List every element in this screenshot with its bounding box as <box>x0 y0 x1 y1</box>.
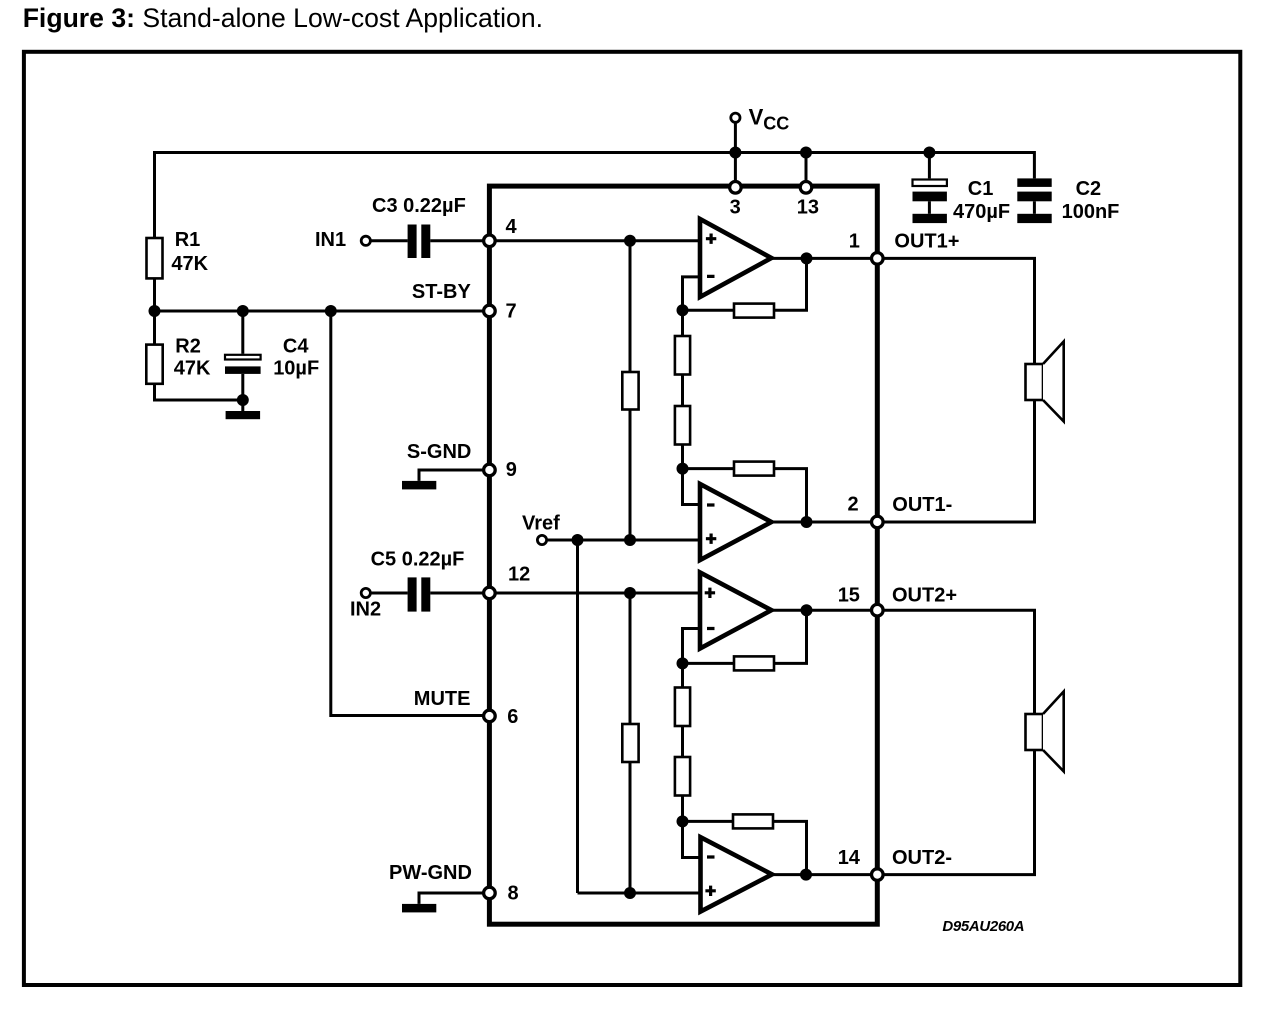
wire op-amp U1 - input jog <box>683 277 701 310</box>
ground C2 <box>1017 214 1051 223</box>
svg-text:2: 2 <box>848 494 859 516</box>
resistor R2 <box>146 345 162 384</box>
svg-text:OUT2+: OUT2+ <box>892 585 957 607</box>
pin 8 <box>484 887 496 899</box>
wire feedback node C <box>683 610 807 663</box>
svg-text:3: 3 <box>730 196 741 218</box>
svg-text:OUT1-: OUT1- <box>892 494 952 516</box>
wire C4 bottom lead <box>241 374 244 411</box>
terminal IN2 <box>361 588 370 597</box>
node feedback B <box>677 463 689 475</box>
node feedback C <box>677 657 689 669</box>
op-amp U1 <box>700 219 771 297</box>
node U2 output <box>801 516 813 528</box>
svg-text:VCC: VCC <box>749 105 790 134</box>
IC box U1 <box>489 186 877 924</box>
svg-text:12: 12 <box>508 563 530 585</box>
wire C1 top lead <box>928 153 931 179</box>
wire bias resistor R3 leads <box>629 241 632 540</box>
wire chain ch1 segments <box>681 310 684 468</box>
resistor chain ch2 lower <box>675 757 690 796</box>
node VCC rail junction <box>729 147 741 159</box>
node Vref branch <box>572 534 584 546</box>
resistor feedback U4 <box>733 814 773 828</box>
pin 4 <box>484 235 496 247</box>
svg-text:S-GND: S-GND <box>407 441 471 463</box>
wire C4 top lead <box>241 311 244 354</box>
svg-text:9: 9 <box>506 459 517 481</box>
op-amp U2 <box>700 484 771 560</box>
capacitor C1 (electrolytic) <box>913 180 947 187</box>
svg-text:ST-BY: ST-BY <box>412 281 472 303</box>
wire IN2 to C5 <box>370 592 407 595</box>
wire ST-BY <box>155 310 488 313</box>
wire op-amp U3 - input jog <box>683 629 701 664</box>
resistor R1 <box>147 238 163 278</box>
terminal Vref <box>537 535 546 544</box>
svg-text:47K: 47K <box>174 358 211 380</box>
svg-text:OUT2-: OUT2- <box>892 847 952 869</box>
wire S-GND <box>419 470 487 481</box>
speaker SPK2 <box>1026 714 1044 750</box>
svg-text:Vref: Vref <box>522 513 560 535</box>
wire bias resistor R4 leads <box>629 593 632 893</box>
svg-text:100nF: 100nF <box>1062 201 1120 223</box>
ground C4 <box>226 411 261 419</box>
wire top rail <box>155 153 1035 239</box>
terminal IN1 <box>361 236 370 245</box>
capacitor C3 plates <box>408 225 417 259</box>
svg-text:MUTE: MUTE <box>414 688 471 710</box>
wire Vref vertical drop <box>576 540 579 893</box>
pin 14 <box>872 869 884 881</box>
wire IN1 to C3 <box>370 239 407 242</box>
wire MUTE branch <box>331 311 487 716</box>
svg-text:R1: R1 <box>175 229 201 251</box>
wire U1 output through pin 1 to speaker <box>771 258 1034 364</box>
node MUTE branch junction <box>325 305 337 317</box>
op-amp U4 <box>701 837 773 911</box>
wire feedback node D <box>683 821 807 874</box>
node C1 rail junction <box>923 147 935 159</box>
wire feedback node A to resistor <box>683 309 735 312</box>
op-amp U3 <box>700 573 771 649</box>
node U1 output <box>801 252 813 264</box>
node C4 top junction <box>237 305 249 317</box>
wire feedback node B <box>683 469 807 522</box>
capacitor C4 (electrolytic) <box>225 355 261 360</box>
resistor bias ch2 <box>622 724 638 762</box>
svg-text:IN1: IN1 <box>315 229 346 251</box>
wire R1 bottom lead <box>153 278 156 311</box>
ground S-GND <box>402 481 436 490</box>
pin 13 <box>800 182 812 194</box>
svg-text:C4: C4 <box>283 335 309 357</box>
wire C2 bottom lead <box>1033 201 1036 214</box>
capacitor C2 plates <box>1017 178 1051 187</box>
svg-text:D95AU260A: D95AU260A <box>942 918 1024 935</box>
wire U2 output through pin 2 to speaker <box>771 400 1034 522</box>
wire R2 top lead <box>153 311 156 345</box>
resistor chain ch1 upper <box>675 336 690 375</box>
node U4 output <box>800 869 812 881</box>
svg-text:R2: R2 <box>175 335 201 357</box>
resistor feedback U1 <box>734 304 774 318</box>
node IN1 bias junction <box>624 235 636 247</box>
node U3 output <box>801 604 813 616</box>
svg-text:13: 13 <box>797 196 819 218</box>
wire C3 to op-amp U1 + input <box>430 239 700 242</box>
node ST-BY left junction <box>149 305 161 317</box>
svg-text:C2: C2 <box>1076 178 1102 200</box>
svg-text:IN2: IN2 <box>350 598 381 620</box>
node pin13 rail junction <box>800 147 812 159</box>
terminal VCC <box>731 113 740 122</box>
wire PW-GND <box>419 893 487 904</box>
wire op-amp U4 + input <box>578 892 701 895</box>
resistor bias ch1 <box>622 372 638 410</box>
wire R2 bottom to C4 <box>155 384 243 400</box>
wire VCC stub <box>734 122 737 184</box>
node feedback A <box>677 304 689 316</box>
wire U3 output through pin 15 to speaker <box>771 610 1034 714</box>
pin 12 <box>484 587 496 599</box>
resistor feedback U2 <box>734 462 774 476</box>
resistor chain ch1 lower <box>675 406 690 445</box>
resistor feedback U3 <box>734 656 774 670</box>
pin 15 <box>872 604 884 616</box>
wire Vref <box>547 539 700 542</box>
svg-text:47K: 47K <box>171 253 208 275</box>
wire U4 output through pin 14 to speaker <box>772 750 1035 875</box>
svg-text:470µF: 470µF <box>953 201 1010 223</box>
pin 3 <box>730 182 742 194</box>
pin 6 <box>484 710 496 722</box>
ground PW-GND <box>402 904 436 913</box>
svg-text:14: 14 <box>838 847 861 869</box>
svg-text:4: 4 <box>506 216 518 238</box>
svg-text:6: 6 <box>507 706 518 728</box>
wire pin13 stub <box>805 153 808 185</box>
svg-text:C5 0.22µF: C5 0.22µF <box>371 549 465 571</box>
svg-text:C3 0.22µF: C3 0.22µF <box>372 195 466 217</box>
pin 9 <box>484 464 496 476</box>
svg-text:15: 15 <box>838 585 860 607</box>
wire C1 bottom lead <box>928 201 931 214</box>
svg-text:10µF: 10µF <box>273 358 319 380</box>
node Vref bias ch2 <box>624 887 636 899</box>
svg-text:Figure 3: Stand-alone Low-cost: Figure 3: Stand-alone Low-cost Applicati… <box>23 3 543 33</box>
node IN2 bias junction <box>624 587 636 599</box>
wire op-amp U2 - input jog <box>683 469 701 505</box>
pin 7 <box>484 305 496 317</box>
node Vref bias ch1 <box>624 534 636 546</box>
pin 1 <box>872 253 884 265</box>
node feedback D <box>677 815 689 827</box>
speaker SPK1 <box>1026 364 1044 400</box>
node C4 ground junction <box>237 394 249 406</box>
wire op-amp U4 - input jog <box>683 821 701 857</box>
wire C5 to op-amp U3 + input <box>430 592 700 595</box>
capacitor C5 plates <box>408 577 417 611</box>
resistor chain ch2 upper <box>675 688 690 727</box>
svg-text:PW-GND: PW-GND <box>389 862 472 884</box>
svg-text:1: 1 <box>849 230 860 252</box>
svg-text:8: 8 <box>508 883 519 905</box>
svg-text:7: 7 <box>506 301 517 323</box>
wire chain ch2 segments <box>681 663 684 821</box>
svg-text:C1: C1 <box>968 178 994 200</box>
ground C1 <box>913 214 947 223</box>
pin 2 <box>872 516 884 528</box>
svg-text:OUT1+: OUT1+ <box>894 231 959 253</box>
